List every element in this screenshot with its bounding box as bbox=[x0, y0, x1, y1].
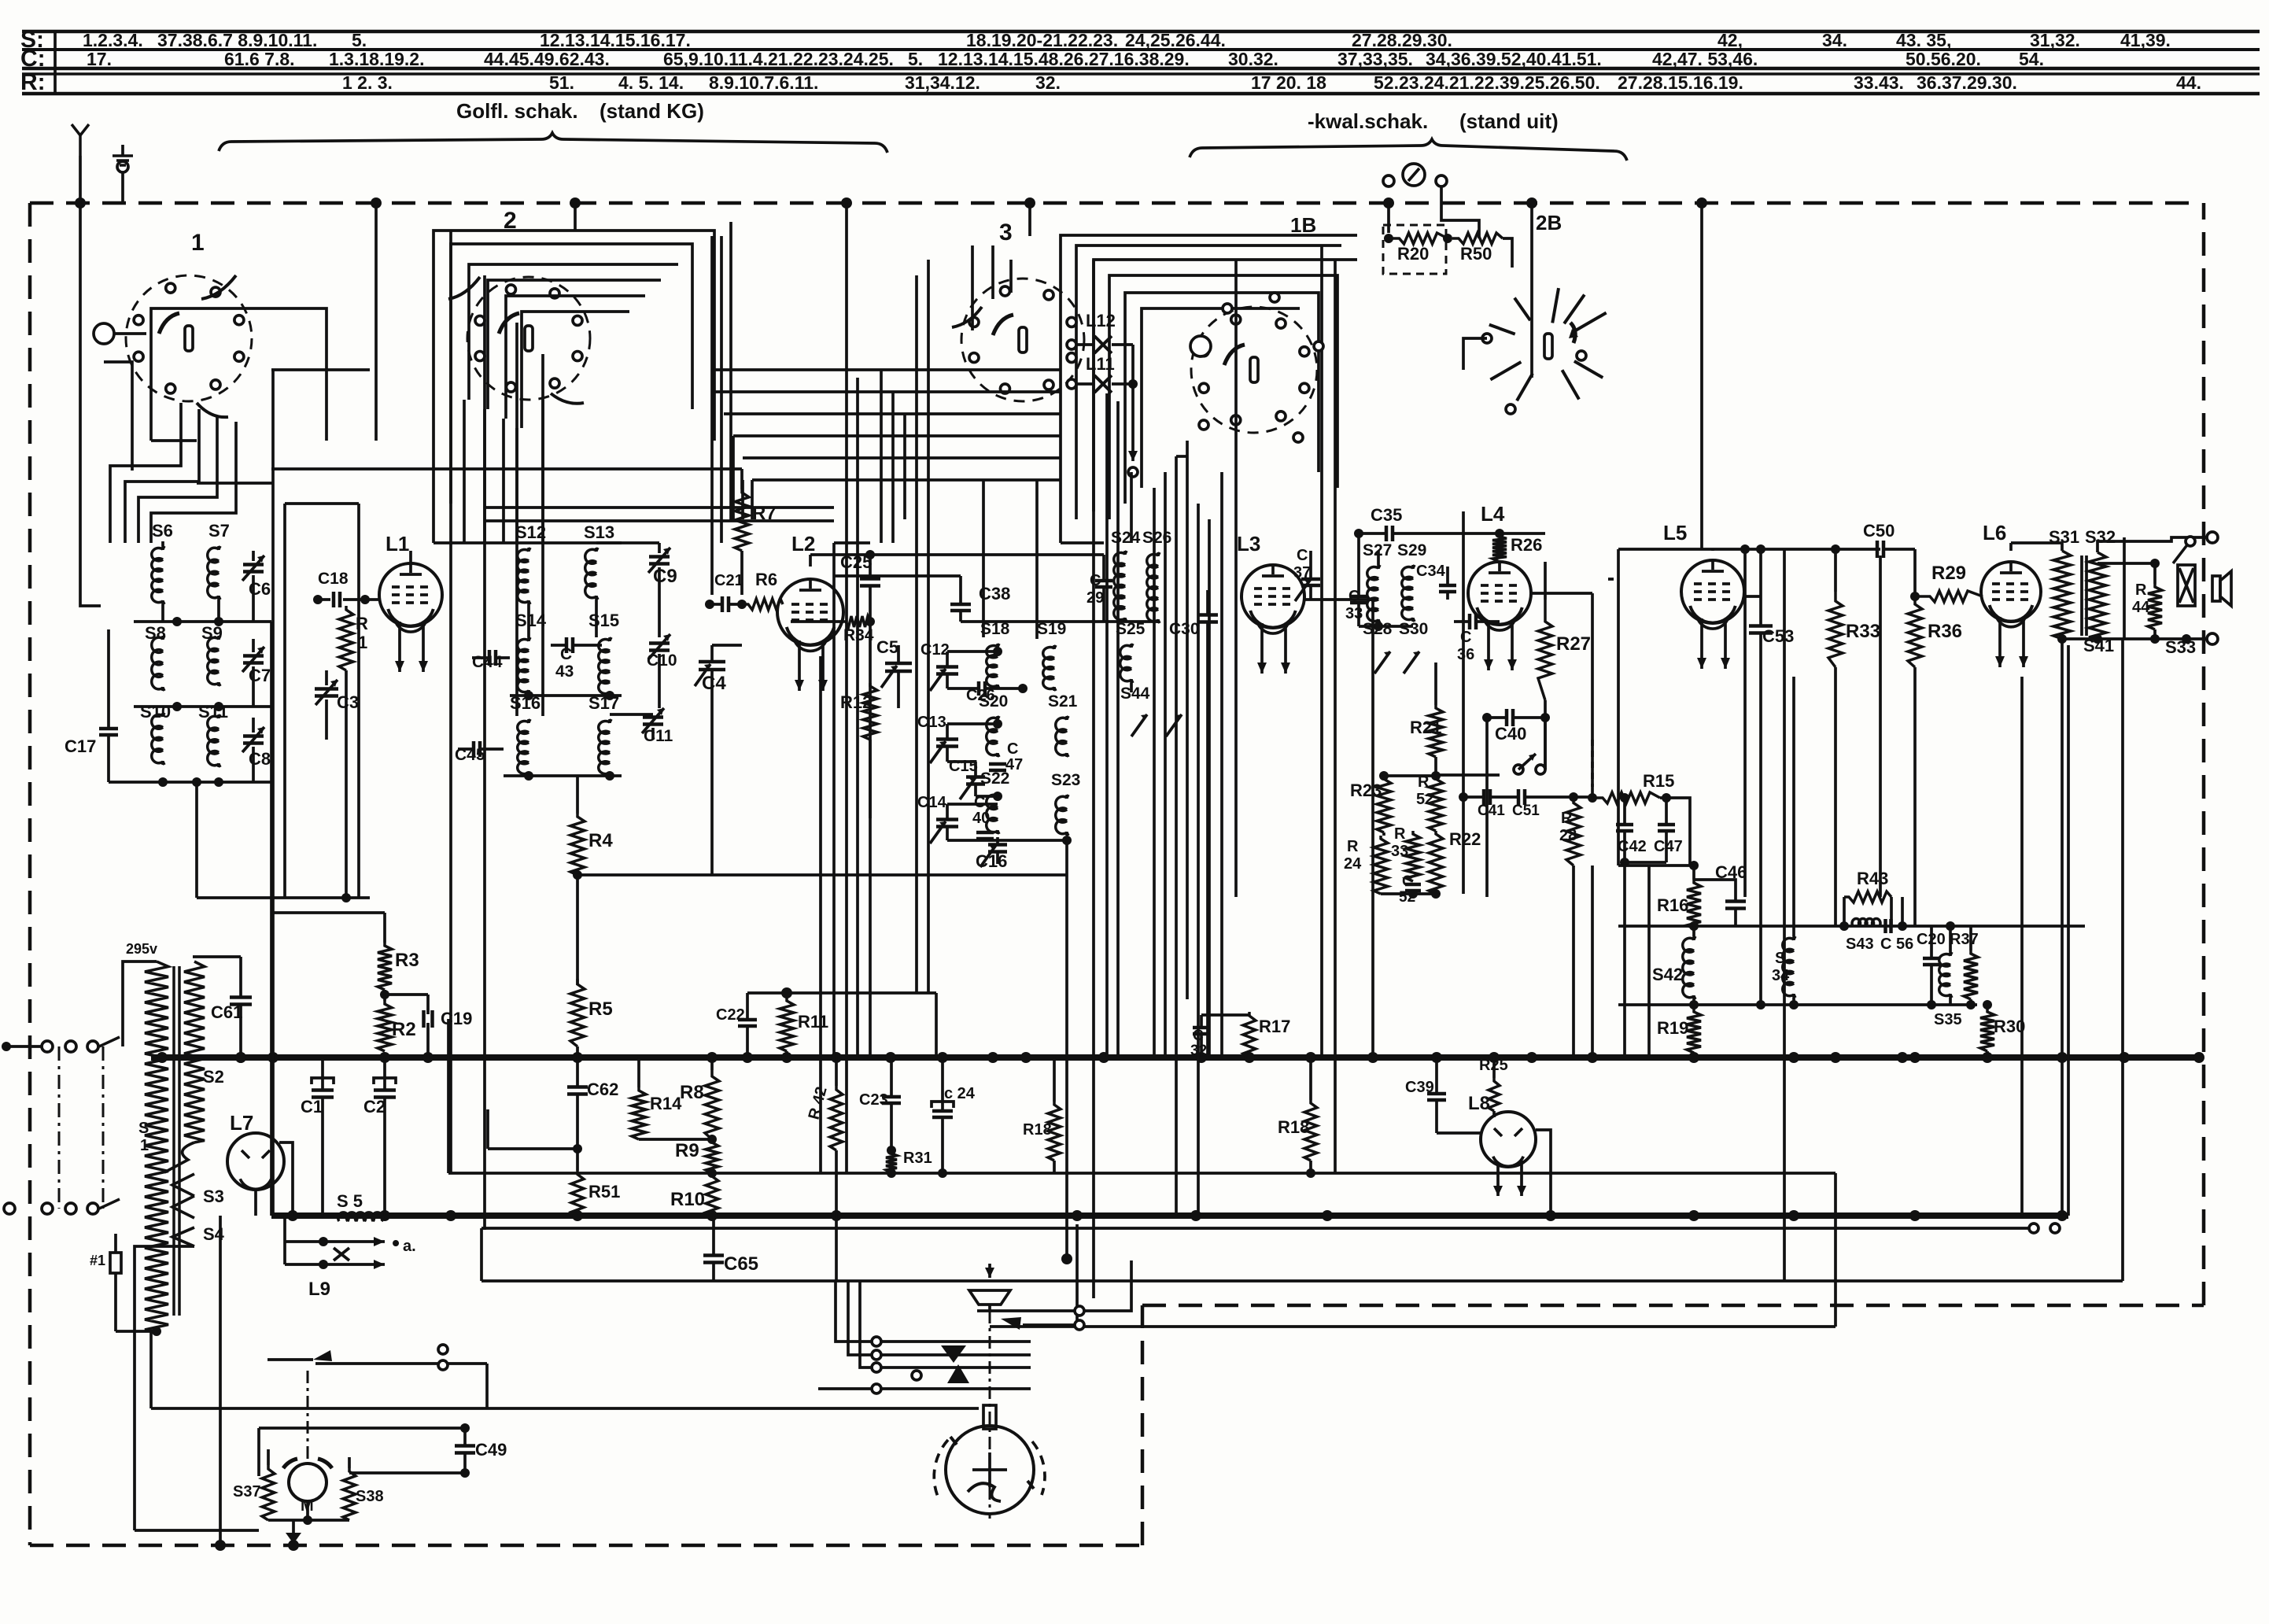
2B riser bbox=[1530, 203, 1533, 378]
switch 3 riser bbox=[1028, 203, 1031, 236]
svg-text:S10: S10 bbox=[140, 702, 171, 722]
svg-text:C53: C53 bbox=[1762, 626, 1794, 646]
svg-text:R8: R8 bbox=[680, 1082, 704, 1103]
switch 1B shaft circle bbox=[1190, 336, 1211, 356]
svg-text:34.: 34. bbox=[1822, 30, 1847, 50]
bus junction dots upper bbox=[157, 1052, 168, 1063]
svg-text:R6: R6 bbox=[755, 570, 777, 589]
svg-text:5.: 5. bbox=[352, 30, 367, 50]
transformer core bbox=[2080, 555, 2083, 636]
wire bottom run 2 bbox=[151, 1407, 979, 1410]
svg-text:37.38.6.7 8.9.10.11.: 37.38.6.7 8.9.10.11. bbox=[157, 30, 317, 50]
trimmer arrows L4 block bbox=[1374, 651, 1390, 674]
signal wire lower return bbox=[481, 1279, 2123, 1283]
svg-text:42,: 42, bbox=[1717, 30, 1743, 50]
trimmer cap C6 bbox=[243, 563, 264, 567]
svg-text:1: 1 bbox=[191, 230, 205, 256]
chassis dashed border inner horizontal bbox=[1142, 1304, 2204, 1308]
svg-text:C4: C4 bbox=[702, 673, 726, 694]
wire nest around switch 2 bbox=[469, 264, 678, 400]
S33 wires bbox=[2097, 562, 2155, 565]
svg-text:C9: C9 bbox=[653, 566, 677, 587]
wire R42 column down to terminal feed bbox=[835, 1173, 838, 1281]
svg-text:C34: C34 bbox=[1416, 563, 1446, 580]
svg-text:R22: R22 bbox=[1449, 829, 1481, 849]
C22 R11 top wire bbox=[747, 991, 936, 995]
svg-text:L2: L2 bbox=[791, 532, 815, 555]
svg-text:44.45.49.62.43.: 44.45.49.62.43. bbox=[484, 49, 610, 69]
svg-text:36: 36 bbox=[1457, 646, 1474, 663]
svg-text:27.28.29.30.: 27.28.29.30. bbox=[1352, 30, 1452, 50]
svg-text:61.6 7.8.: 61.6 7.8. bbox=[224, 49, 295, 69]
svg-text:S19: S19 bbox=[1037, 620, 1066, 638]
svg-text:R3: R3 bbox=[395, 950, 419, 971]
svg-text:L7: L7 bbox=[230, 1111, 253, 1135]
svg-text:S17: S17 bbox=[588, 693, 619, 713]
svg-text:3: 3 bbox=[999, 220, 1013, 245]
svg-text:C23: C23 bbox=[859, 1091, 888, 1109]
svg-text:1.3.18.19.2.: 1.3.18.19.2. bbox=[329, 49, 425, 69]
svg-text:R33: R33 bbox=[1846, 621, 1880, 642]
trimmer cap C8 bbox=[243, 734, 264, 738]
wire coil block to L1 area bbox=[270, 622, 273, 1216]
svg-text:S37: S37 bbox=[233, 1483, 261, 1500]
antenna input bbox=[79, 135, 82, 156]
dial disc pointer arrows bbox=[950, 1437, 957, 1445]
svg-text:C50: C50 bbox=[1863, 521, 1895, 541]
switch 1 shaft circle bbox=[94, 323, 114, 344]
block bottom wires bbox=[1381, 892, 1436, 895]
wire L5 cathode bundle bbox=[1693, 866, 1695, 1057]
svg-text:L12: L12 bbox=[1086, 311, 1116, 330]
volume pot wiper bbox=[1514, 765, 1523, 774]
wire bottom return to dial bbox=[990, 1325, 1835, 1328]
lamp feed wire bbox=[1131, 345, 1134, 441]
svg-text:36.37.29.30.: 36.37.29.30. bbox=[1917, 72, 2017, 93]
svg-text:31,34.12.: 31,34.12. bbox=[905, 72, 980, 93]
svg-text:34,36.39.52,40.41.51.: 34,36.39.52,40.41.51. bbox=[1426, 49, 1602, 69]
block bottom wire bbox=[947, 839, 1067, 842]
wire stub 2B bbox=[1463, 338, 1487, 370]
svg-text:S7: S7 bbox=[208, 521, 230, 541]
trimmer cap C9 bbox=[649, 555, 670, 559]
svg-text:R16: R16 bbox=[1657, 895, 1688, 915]
svg-text:18.19.20-21.22.23.: 18.19.20-21.22.23. bbox=[966, 30, 1118, 50]
wire R3 top from L1 bbox=[273, 911, 385, 914]
svg-text:S38: S38 bbox=[356, 1488, 384, 1505]
svg-text:43. 35,: 43. 35, bbox=[1896, 30, 1951, 50]
wire bottom run 3 bbox=[259, 1427, 465, 1430]
mid line 2 right block bbox=[1618, 1003, 1977, 1006]
svg-text:R14: R14 bbox=[650, 1094, 682, 1113]
svg-text:a.: a. bbox=[403, 1238, 416, 1255]
resistor R37 bbox=[1964, 950, 1978, 999]
switch 2 levers bbox=[448, 277, 480, 299]
svg-text:R23: R23 bbox=[1350, 781, 1382, 800]
L8 wires bbox=[1437, 1131, 1481, 1135]
svg-text:C18: C18 bbox=[318, 570, 349, 588]
svg-text:R19: R19 bbox=[1657, 1018, 1688, 1038]
coil S35 bbox=[1939, 952, 1952, 998]
svg-text:R27: R27 bbox=[1556, 633, 1591, 655]
wire long horizontal grid feed bbox=[271, 467, 742, 471]
wire bundle switch 2 to switch 3 bbox=[714, 368, 1061, 371]
wire S13 C9 top bbox=[596, 541, 659, 544]
wire horizontals to L2 block bbox=[485, 506, 834, 509]
wire horizontal runs bbox=[271, 368, 370, 371]
svg-text:S11: S11 bbox=[198, 702, 228, 722]
svg-text:R36: R36 bbox=[1928, 621, 1962, 642]
svg-text:C14: C14 bbox=[917, 794, 947, 811]
svg-text:12.13.14.15.16.17.: 12.13.14.15.16.17. bbox=[540, 30, 691, 50]
L7 cathode to bus bbox=[254, 1190, 257, 1216]
L2 plate wire top bbox=[810, 553, 1104, 556]
coil block bottom wire bbox=[1359, 625, 1413, 628]
svg-text:S42: S42 bbox=[1652, 965, 1683, 984]
svg-text:5.: 5. bbox=[908, 49, 923, 69]
pickup wires bbox=[977, 1309, 1075, 1312]
transformer top wire to border bbox=[2097, 537, 2212, 552]
mains dash-dot links bbox=[58, 1046, 61, 1209]
svg-text:R51: R51 bbox=[588, 1182, 620, 1201]
svg-text:R:: R: bbox=[20, 69, 46, 95]
capacitor C20 bbox=[1923, 957, 1940, 961]
svg-text:43: 43 bbox=[555, 663, 574, 681]
svg-text:S3: S3 bbox=[203, 1187, 224, 1206]
L4 plate wire right bbox=[1500, 532, 1545, 535]
svg-text:C19: C19 bbox=[441, 1009, 472, 1028]
svg-text:S23: S23 bbox=[1051, 771, 1080, 789]
svg-text:1B: 1B bbox=[1290, 213, 1316, 237]
wire C4 top bbox=[712, 644, 742, 647]
svg-text:L8: L8 bbox=[1468, 1093, 1490, 1114]
table frame bbox=[22, 30, 2260, 34]
svg-text:33.43.: 33.43. bbox=[1854, 72, 1904, 93]
svg-text:1 2. 3.: 1 2. 3. bbox=[342, 72, 393, 93]
svg-text:S24: S24 bbox=[1111, 529, 1141, 547]
secondary tap to L7 bbox=[164, 1142, 194, 1172]
svg-text:C51: C51 bbox=[1512, 803, 1540, 819]
svg-text:C: C bbox=[1007, 740, 1018, 758]
switch 2 frame bbox=[434, 231, 714, 543]
svg-text:33: 33 bbox=[1345, 605, 1363, 622]
motor axis dash-dot bbox=[307, 1371, 309, 1462]
svg-text:C12: C12 bbox=[921, 641, 950, 659]
R20 R50 row bbox=[1387, 203, 1390, 233]
svg-text:(stand uit): (stand uit) bbox=[1459, 109, 1559, 133]
svg-text:C: C bbox=[1297, 547, 1308, 564]
svg-text:2B: 2B bbox=[1536, 211, 1562, 234]
transformer bottom joins bbox=[2062, 637, 2097, 640]
svg-text:R29: R29 bbox=[1931, 563, 1966, 584]
svg-text:R9: R9 bbox=[675, 1140, 699, 1161]
svg-text:S6: S6 bbox=[152, 521, 173, 541]
svg-text:S26: S26 bbox=[1142, 529, 1171, 547]
svg-text:L3: L3 bbox=[1237, 532, 1260, 555]
chassis dashed border bottom bbox=[30, 1544, 1142, 1548]
svg-text:C44: C44 bbox=[472, 653, 503, 671]
svg-text:S44: S44 bbox=[1120, 685, 1150, 703]
motor wires bbox=[268, 1519, 349, 1522]
long signal wire above chassis line bbox=[448, 1172, 1835, 1175]
dashed link bbox=[1591, 740, 1594, 787]
L6 top wire bbox=[2009, 543, 2013, 551]
svg-text:54.: 54. bbox=[2019, 49, 2044, 69]
switch wafer 2B sunburst bbox=[1544, 334, 1552, 359]
switch wafer 1B bbox=[1191, 307, 1317, 433]
mid line 1 right block bbox=[1618, 925, 2085, 928]
L3 plate wire bbox=[1304, 598, 1373, 601]
svg-text:L9: L9 bbox=[308, 1279, 330, 1300]
bus wire thick upper (HT line) bbox=[151, 1054, 2204, 1061]
speaker bbox=[2212, 576, 2220, 601]
dashed box around R20 bbox=[1383, 225, 1446, 274]
svg-text:S35: S35 bbox=[1934, 1011, 1962, 1028]
dial axis dash-dot bbox=[989, 1311, 991, 1519]
svg-text:S16: S16 bbox=[510, 693, 541, 713]
svg-text:C42: C42 bbox=[1618, 838, 1647, 855]
trimmer cap C7 bbox=[243, 654, 264, 658]
wire block S24 bottom bbox=[1104, 620, 1158, 623]
svg-text:24,25.26.44.: 24,25.26.44. bbox=[1125, 30, 1226, 50]
svg-text:(stand KG): (stand KG) bbox=[600, 99, 704, 123]
svg-text:C17: C17 bbox=[65, 736, 96, 756]
svg-text:C5: C5 bbox=[876, 637, 898, 657]
svg-text:S22: S22 bbox=[980, 770, 1009, 788]
chassis dashed border right bbox=[2202, 203, 2206, 1305]
svg-text:12.13.14.15.48.26.27.16.38.29.: 12.13.14.15.48.26.27.16.38.29. bbox=[938, 49, 1190, 69]
svg-text:C10: C10 bbox=[647, 651, 677, 670]
svg-text:50.56.20.: 50.56.20. bbox=[1906, 49, 1981, 69]
svg-text:C49: C49 bbox=[475, 1440, 507, 1460]
svg-text:S13: S13 bbox=[584, 522, 614, 542]
svg-text:52.23.24.21.22.39.25.26.50.: 52.23.24.21.22.39.25.26.50. bbox=[1374, 72, 1600, 93]
antenna coupling L9 arrows bbox=[319, 1237, 328, 1246]
svg-text:44.: 44. bbox=[2176, 72, 2201, 93]
wire R29 to L6 bbox=[1981, 595, 1984, 598]
switch wafer 2 bbox=[467, 277, 590, 400]
svg-text:R10: R10 bbox=[670, 1189, 705, 1210]
wire verticals bundle A bbox=[271, 370, 275, 1216]
junction dots on top border bbox=[75, 197, 86, 209]
earth terminal bbox=[117, 161, 128, 172]
svg-text:C2: C2 bbox=[363, 1097, 386, 1116]
svg-text:31,32.: 31,32. bbox=[2030, 30, 2080, 50]
svg-text:#1: #1 bbox=[90, 1253, 105, 1268]
svg-text:R50: R50 bbox=[1460, 244, 1492, 264]
R14 R8 join bbox=[639, 1138, 712, 1141]
left drop wire bbox=[135, 1529, 259, 1532]
transformer secondary top wire bbox=[193, 955, 241, 958]
L5 top wire bbox=[1711, 549, 1714, 551]
wire left block horizontals bbox=[197, 482, 273, 485]
motor M bbox=[289, 1463, 327, 1501]
selector arrows bbox=[941, 1345, 966, 1363]
junction bottom row coils bbox=[109, 781, 271, 784]
svg-text:L5: L5 bbox=[1663, 521, 1687, 544]
wire S-block bottom extension bbox=[712, 873, 1067, 877]
L8 pins bbox=[1496, 1163, 1500, 1196]
brace kwal section bbox=[1190, 139, 1627, 161]
svg-text:29: 29 bbox=[1087, 589, 1104, 607]
switch 3 frame bbox=[1061, 235, 1357, 543]
svg-text:C 56: C 56 bbox=[1880, 936, 1913, 953]
svg-text:8.9.10.7.6.11.: 8.9.10.7.6.11. bbox=[709, 72, 818, 93]
L1 grid cap wire bbox=[370, 598, 379, 601]
switch 2B terminals bbox=[1482, 334, 1492, 343]
wire bundle elbows down to L2 block bbox=[741, 480, 744, 519]
wire verticals L2 to S-block bbox=[880, 370, 883, 543]
svg-text:295v: 295v bbox=[126, 941, 157, 957]
svg-text:R17: R17 bbox=[1259, 1017, 1290, 1036]
svg-text:S31: S31 bbox=[2049, 527, 2079, 547]
svg-text:17.: 17. bbox=[87, 49, 112, 69]
svg-text:24: 24 bbox=[1344, 855, 1362, 873]
svg-text:65,9.10.11.4.21.22.23.24.25.: 65,9.10.11.4.21.22.23.24.25. bbox=[663, 49, 894, 69]
svg-text:C40: C40 bbox=[1495, 724, 1526, 744]
trimmer arrows S44 bbox=[1131, 714, 1147, 736]
svg-text:L6: L6 bbox=[1983, 521, 2006, 544]
svg-text:c 24: c 24 bbox=[944, 1085, 976, 1102]
wire riser to output transformer bbox=[2121, 639, 2124, 1281]
wire bundle from wafer 1 down staircase bbox=[110, 403, 181, 543]
svg-text:42,47. 53,46.: 42,47. 53,46. bbox=[1652, 49, 1758, 69]
svg-text:51.: 51. bbox=[549, 72, 574, 93]
svg-text:R: R bbox=[1347, 838, 1359, 855]
svg-text:C11: C11 bbox=[644, 727, 673, 745]
wire verticals between switch2 and switch3 bbox=[710, 236, 714, 595]
svg-text:37,33,35.: 37,33,35. bbox=[1337, 49, 1413, 69]
chassis dashed border left bbox=[28, 203, 32, 1545]
pickup arm symbol bbox=[969, 1290, 1010, 1305]
svg-text:L1: L1 bbox=[386, 532, 409, 555]
mains input terminals upper bbox=[2, 1042, 11, 1051]
ground below motor bbox=[292, 1520, 295, 1533]
transformer core lines bbox=[172, 966, 175, 1316]
svg-text:-kwal.schak.: -kwal.schak. bbox=[1308, 109, 1428, 133]
chassis dashed border top bbox=[30, 201, 2201, 205]
svg-text:C41: C41 bbox=[1478, 803, 1505, 819]
svg-text:R15: R15 bbox=[1643, 771, 1674, 791]
svg-text:R26: R26 bbox=[1511, 535, 1542, 555]
mains wire to transformer bbox=[120, 961, 123, 1037]
svg-text:S20: S20 bbox=[979, 692, 1008, 710]
mains input terminals lower bbox=[4, 1203, 15, 1214]
L7 top wire bbox=[279, 1142, 293, 1216]
svg-text:1.2.3.4.: 1.2.3.4. bbox=[83, 30, 143, 50]
switch 3 lever bbox=[952, 307, 982, 327]
wire antenna to coils bbox=[80, 203, 101, 606]
svg-text:S32: S32 bbox=[2085, 527, 2116, 547]
trimmer cap C11 bbox=[643, 715, 663, 719]
svg-text:Golfl. schak.: Golfl. schak. bbox=[456, 99, 578, 123]
svg-text:27.28.15.16.19.: 27.28.15.16.19. bbox=[1618, 72, 1743, 93]
svg-text:C16: C16 bbox=[976, 851, 1007, 871]
svg-text:C: C bbox=[1402, 873, 1413, 890]
svg-text:S29: S29 bbox=[1397, 541, 1426, 559]
wire S-block to R4 bbox=[576, 776, 579, 814]
switch 1 contact levers bbox=[201, 275, 236, 299]
wire verticals switch3 up bbox=[971, 245, 974, 330]
svg-text:R37: R37 bbox=[1950, 931, 1979, 948]
svg-text:S2: S2 bbox=[203, 1067, 224, 1087]
svg-text:R43: R43 bbox=[1857, 869, 1888, 888]
wire L5 grid feed down bbox=[1617, 579, 1620, 866]
junction row 2 bbox=[134, 705, 271, 708]
svg-text:C1: C1 bbox=[301, 1097, 323, 1116]
junction coils mid bbox=[510, 694, 622, 697]
svg-text:C21: C21 bbox=[714, 572, 743, 589]
signal wire below chassis line bbox=[481, 1227, 2028, 1230]
wire bottom run 4 bbox=[349, 1471, 465, 1475]
bus junction dots lower bbox=[287, 1210, 298, 1221]
svg-text:41,39.: 41,39. bbox=[2120, 30, 2171, 50]
junction coils bottom bbox=[504, 774, 622, 777]
svg-text:S9: S9 bbox=[201, 623, 223, 643]
svg-text:S15: S15 bbox=[588, 611, 619, 630]
junction S6 S7 bottom bbox=[134, 620, 271, 623]
long left vertical to bottom bbox=[219, 1216, 222, 1545]
transformer bottom bbox=[116, 1330, 157, 1333]
wire L2 grid row bbox=[834, 574, 961, 578]
wire nest around switch 1B bbox=[1109, 275, 1337, 519]
chassis dashed border inner vertical bbox=[1141, 1305, 1145, 1545]
svg-text:C13: C13 bbox=[917, 714, 946, 731]
svg-text:R31: R31 bbox=[903, 1150, 932, 1167]
trimmer cap C3 bbox=[315, 687, 338, 691]
wire verticals below 1B bbox=[1153, 488, 1156, 1057]
svg-text:C:: C: bbox=[20, 46, 46, 72]
svg-text:C65: C65 bbox=[724, 1253, 758, 1275]
switch 2 tails down bbox=[463, 400, 466, 543]
bus wire thick lower (chassis line) bbox=[271, 1212, 2068, 1219]
svg-text:32.: 32. bbox=[1035, 72, 1061, 93]
svg-text:S30: S30 bbox=[1399, 620, 1428, 638]
svg-text:C62: C62 bbox=[587, 1080, 618, 1099]
L9 core cross bbox=[334, 1248, 349, 1260]
svg-text:R20: R20 bbox=[1397, 244, 1429, 264]
svg-text:S 5: S 5 bbox=[337, 1191, 363, 1211]
fuse bbox=[110, 1253, 121, 1273]
svg-text:L4: L4 bbox=[1481, 502, 1505, 526]
svg-text:R: R bbox=[1394, 825, 1406, 843]
svg-text:S43: S43 bbox=[1846, 936, 1874, 953]
S4 arrow taps bbox=[156, 1227, 157, 1228]
pickup wire 2 bbox=[1001, 1317, 1021, 1330]
switch 1B frame bbox=[1094, 260, 1357, 511]
switch 1B contacts bbox=[1223, 304, 1232, 313]
brace golfl section bbox=[219, 133, 887, 153]
svg-text:S21: S21 bbox=[1048, 692, 1078, 710]
switch 1 frame wires bbox=[151, 308, 327, 441]
junction dots on bottom border bbox=[215, 1540, 226, 1551]
svg-text:R5: R5 bbox=[588, 998, 613, 1020]
wire bottom run 1 bbox=[315, 1362, 487, 1365]
trimmer cap C10 bbox=[649, 641, 670, 645]
svg-text:4. 5. 14.: 4. 5. 14. bbox=[618, 72, 684, 93]
L5 plate wire bbox=[1744, 595, 1761, 598]
terminal bank bbox=[872, 1337, 881, 1346]
svg-text:C: C bbox=[974, 794, 985, 811]
terminal bank feeds bbox=[836, 1281, 872, 1342]
L5 grid wire left dashed bbox=[1617, 549, 1620, 579]
dial drive disc bbox=[946, 1426, 1034, 1514]
svg-text:C30: C30 bbox=[1169, 620, 1200, 638]
svg-text:17 20. 18: 17 20. 18 bbox=[1251, 72, 1326, 93]
svg-text:C35: C35 bbox=[1371, 505, 1402, 525]
svg-text:C47: C47 bbox=[1654, 838, 1683, 855]
switch wafer 3 bbox=[961, 279, 1084, 401]
